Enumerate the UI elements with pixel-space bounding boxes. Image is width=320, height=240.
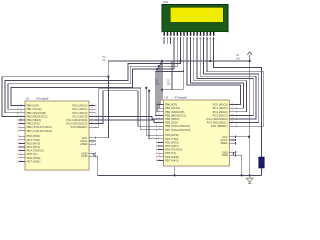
wire U1 GND pins link	[94, 153, 95, 156]
svg-text:4: 4	[20, 142, 21, 144]
svg-text:PD6 (AIN0): PD6 (AIN0)	[27, 156, 41, 160]
svg-text:20: 20	[91, 139, 93, 141]
svg-text:U1: U1	[26, 96, 30, 100]
svg-text:5: 5	[158, 144, 159, 146]
wire LCD pin 3 stub	[170, 37, 172, 44]
svg-text:15: 15	[20, 108, 22, 110]
svg-text:14: 14	[20, 104, 22, 106]
LCD pin header strip with pins 1-16	[162, 32, 228, 37]
U3 pin stubs	[157, 104, 163, 106]
wire continuation left with jog to U1	[8, 66, 159, 109]
svg-text:2: 2	[158, 134, 159, 136]
wire box bottom horizontal	[162, 89, 183, 91]
svg-text:AREF: AREF	[221, 141, 229, 145]
svg-text:28: 28	[232, 121, 234, 123]
svg-text:PB5 (SCK): PB5 (SCK)	[27, 122, 40, 126]
svg-text:22: 22	[91, 155, 93, 157]
svg-text:20: 20	[232, 138, 234, 140]
wire branch down to U3 PD1	[149, 91, 157, 139]
power symbol +5V	[247, 52, 252, 61]
svg-text:7: 7	[232, 135, 233, 137]
junction U3 VCC / +5V vertical	[248, 136, 250, 138]
crystal X1 (blue component)	[259, 157, 265, 168]
svg-text:PB0 (ICP): PB0 (ICP)	[27, 104, 39, 108]
wire ground bus bottom	[98, 174, 262, 176]
junction at T of LCD pin 5	[158, 65, 160, 67]
svg-text:7: 7	[91, 136, 92, 138]
svg-text:11: 11	[20, 153, 22, 155]
svg-text:13: 13	[158, 159, 160, 161]
wire box right vertical	[171, 61, 173, 90]
U1 pin stubs	[19, 105, 25, 107]
svg-text:PD4 (T0/XCK): PD4 (T0/XCK)	[27, 149, 44, 153]
svg-text:22p: 22p	[167, 83, 172, 86]
svg-text:3: 3	[158, 137, 159, 139]
svg-text:PB0 (ICP): PB0 (ICP)	[165, 103, 177, 107]
microcontroller U1 (ATmega8) body	[25, 101, 89, 170]
svg-text:PC0 (ADC0): PC0 (ADC0)	[213, 103, 228, 107]
junction bus/LCD pin6	[179, 60, 181, 62]
svg-text:PC3 (ADC3): PC3 (ADC3)	[213, 113, 228, 117]
ground symbol	[245, 175, 254, 183]
wire LCD pin 5 drop to level 66.2	[159, 37, 177, 66]
wire LCD data pin 8 to U3 PC0	[187, 37, 240, 105]
svg-text:PC5 (ADC5/SCL): PC5 (ADC5/SCL)	[207, 121, 228, 125]
svg-text:24: 24	[232, 107, 234, 109]
svg-text:26: 26	[91, 115, 93, 117]
svg-text:13: 13	[20, 160, 22, 162]
svg-text:PC5 (ADC5/SCL): PC5 (ADC5/SCL)	[66, 122, 87, 126]
wire box left vertical (bus to cap row)	[161, 61, 163, 90]
wire LCD data pin 11 to U3 PC3	[197, 37, 253, 115]
wire U1 GND drop to ground bus	[94, 156, 98, 175]
svg-text:PC4 (ADC4/SDA): PC4 (ADC4/SDA)	[66, 118, 87, 122]
svg-text:12: 12	[158, 155, 160, 157]
svg-text:9: 9	[20, 126, 21, 128]
svg-text:PD1 (TXD): PD1 (TXD)	[27, 138, 40, 142]
wire U3 ground stub up	[174, 166, 176, 175]
wire U3 VCC to +5V line	[236, 136, 249, 138]
svg-text:PB6 (XTAL1/TOSC1): PB6 (XTAL1/TOSC1)	[27, 125, 52, 129]
svg-text:ATmega8: ATmega8	[174, 95, 188, 99]
wire LCD pin 1 stub	[163, 37, 165, 44]
svg-text:PB3 (MOSI/OC2): PB3 (MOSI/OC2)	[27, 114, 48, 118]
junction box bottom	[161, 89, 163, 91]
svg-text:PD0 (RXD): PD0 (RXD)	[27, 134, 41, 138]
wire LCD data pin 12 to U3 PC4	[200, 37, 256, 119]
svg-text:PD2 (INT0): PD2 (INT0)	[27, 141, 41, 145]
svg-text:17: 17	[20, 115, 22, 117]
U1 unconnected pin markers	[18, 105, 19, 107]
svg-text:AREF: AREF	[80, 142, 88, 146]
svg-text:18: 18	[158, 117, 160, 119]
svg-text:PB6 (XTAL1/TOSC1): PB6 (XTAL1/TOSC1)	[165, 124, 190, 128]
wire LCD pin 2 stub	[166, 37, 168, 44]
junction ground bus / U3 GND drop	[241, 174, 243, 176]
U3 unconnected pin markers	[156, 104, 157, 106]
svg-text:PD5 (T1): PD5 (T1)	[27, 152, 38, 156]
svg-text:5V: 5V	[103, 59, 106, 62]
svg-text:27: 27	[91, 118, 93, 120]
wire LCD pin 16 to crystal branch	[214, 37, 262, 157]
junction ground bus / U3 stub	[174, 174, 176, 176]
svg-text:25: 25	[232, 110, 234, 112]
svg-text:PC2 (ADC2): PC2 (ADC2)	[213, 110, 228, 114]
wire LCD pin 6 drop to level 63.5	[161, 37, 181, 64]
wire LCD data pin 14 to U3 PC6	[207, 37, 264, 126]
wire continuation left with jog to U1	[5, 64, 161, 113]
wire LCD pin 7 drop to level 71.5	[155, 37, 184, 72]
wire LCD pin 4 drop to level 68.9	[157, 37, 174, 69]
svg-text:PD5 (T1): PD5 (T1)	[165, 151, 176, 155]
svg-text:8: 8	[232, 151, 233, 153]
wire branch down to U3 PB2	[157, 66, 159, 108]
svg-text:23: 23	[91, 104, 93, 106]
wire VCC bus horizontal	[108, 60, 250, 62]
svg-text:U3: U3	[165, 95, 169, 99]
svg-text:21: 21	[232, 142, 234, 144]
svg-text:PB1 (OC1A): PB1 (OC1A)	[27, 107, 42, 111]
svg-text:10: 10	[158, 128, 160, 130]
svg-text:19: 19	[20, 122, 22, 124]
junction at T of LCD pin 4	[156, 68, 158, 70]
svg-text:9: 9	[158, 125, 159, 127]
svg-text:PB1 (OC1A): PB1 (OC1A)	[165, 106, 180, 110]
svg-text:2: 2	[20, 135, 21, 137]
svg-text:10: 10	[20, 129, 22, 131]
junction bus/box left	[161, 60, 163, 62]
junction bus/right drop	[249, 60, 251, 62]
wire U1 PC4 to U3 PB5	[95, 120, 157, 123]
svg-text:PC3 (ADC3): PC3 (ADC3)	[72, 114, 87, 118]
svg-text:25: 25	[91, 111, 93, 113]
svg-text:1: 1	[91, 126, 92, 128]
wire branch down to U3 PB1	[156, 69, 158, 112]
svg-text:16: 16	[158, 110, 160, 112]
svg-text:PB2 (SS/OC1B): PB2 (SS/OC1B)	[27, 111, 46, 115]
wire U3 GND pins link	[234, 152, 236, 155]
svg-text:23: 23	[232, 103, 234, 105]
svg-text:PB4 (MISO): PB4 (MISO)	[165, 117, 180, 121]
svg-text:PC0 (ADC0): PC0 (ADC0)	[72, 104, 87, 108]
svg-text:GND: GND	[222, 153, 228, 157]
svg-text:18: 18	[20, 118, 22, 120]
svg-text:PD3 (INT1): PD3 (INT1)	[27, 145, 41, 149]
wire right vertical from VCC junction down to ground rail	[249, 61, 251, 175]
svg-text:GND: GND	[81, 154, 87, 158]
junction LCD pin 15 / bus	[209, 60, 211, 62]
svg-text:28: 28	[91, 122, 93, 124]
wire LCD data pin 9 to U3 PC1	[190, 37, 243, 108]
wire U3 GND drop to ground bus	[234, 155, 242, 175]
wire branch down to U3 PB0	[155, 72, 157, 116]
svg-text:PB4 (MISO): PB4 (MISO)	[27, 118, 42, 122]
svg-text:6: 6	[20, 149, 21, 151]
wire continuation left with jog to U1	[11, 69, 157, 106]
junction Z-wire / PD0 branch	[145, 87, 147, 89]
svg-text:24: 24	[91, 108, 93, 110]
wire component bottom lead	[260, 168, 262, 175]
junction at T of LCD pin 6	[160, 62, 162, 64]
wire branch down to U3 PD0	[146, 88, 157, 135]
svg-text:PC1 (ADC1): PC1 (ADC1)	[72, 107, 87, 111]
wire LCD pin 15 to bus	[209, 37, 211, 61]
svg-text:16: 16	[20, 111, 22, 113]
wire U1 PC5 to U3 PB6	[95, 91, 157, 126]
svg-text:PC6 (RESET): PC6 (RESET)	[71, 125, 88, 129]
svg-text:PD3 (INT1): PD3 (INT1)	[165, 144, 179, 148]
svg-text:3: 3	[20, 138, 21, 140]
svg-text:PC1 (ADC1): PC1 (ADC1)	[213, 106, 228, 110]
svg-text:PD4 (T0/XCK): PD4 (T0/XCK)	[165, 148, 182, 152]
junction ground bus / +5V vertical	[249, 174, 251, 176]
wire LCD data pin 13 to U3 PC5	[204, 37, 259, 123]
wire U1 PC6 to U3 PB7	[95, 88, 157, 130]
svg-text:8: 8	[91, 152, 92, 154]
svg-text:PB3 (MOSI/OC2): PB3 (MOSI/OC2)	[165, 113, 186, 117]
wire LCD data pin 10 to U3 PC2	[194, 37, 247, 112]
svg-text:PC6 (RESET): PC6 (RESET)	[211, 124, 228, 128]
svg-text:6: 6	[158, 148, 159, 150]
svg-text:5: 5	[20, 145, 21, 147]
svg-text:17: 17	[158, 114, 160, 116]
wire box drop to U3 top	[161, 90, 163, 101]
svg-text:ATmega8: ATmega8	[35, 96, 49, 100]
svg-text:PB5 (SCK): PB5 (SCK)	[165, 121, 178, 125]
svg-text:PD0 (RXD): PD0 (RXD)	[165, 133, 179, 137]
junction Z-wire / PD1 branch	[148, 90, 150, 92]
svg-text:PD1 (TXD): PD1 (TXD)	[165, 137, 178, 141]
svg-text:PD7 (AIN1): PD7 (AIN1)	[27, 159, 41, 163]
svg-text:4: 4	[158, 141, 159, 143]
svg-text:27: 27	[232, 117, 234, 119]
wire bus-A left drop to U1 PB3	[2, 61, 108, 116]
svg-text:PD7 (AIN1): PD7 (AIN1)	[165, 158, 179, 162]
svg-text:19: 19	[158, 121, 160, 123]
svg-text:PC2 (ADC2): PC2 (ADC2)	[72, 111, 87, 115]
svg-text:PB7 (XTAL2/TOSC2): PB7 (XTAL2/TOSC2)	[27, 129, 52, 133]
svg-text:PC4 (ADC4/SDA): PC4 (ADC4/SDA)	[206, 117, 227, 121]
svg-text:PB7 (XTAL2/TOSC2): PB7 (XTAL2/TOSC2)	[165, 128, 190, 132]
svg-text:PD2 (INT0): PD2 (INT0)	[165, 140, 179, 144]
svg-text:1: 1	[232, 125, 233, 127]
svg-text:21: 21	[91, 143, 93, 145]
wire U1 VCC to +5V line	[95, 77, 108, 138]
svg-text:11: 11	[158, 152, 160, 154]
wire U1 PC3 to U3 PB4	[95, 116, 157, 119]
junction U1 VCC / bus-A drop	[107, 76, 109, 78]
svg-text:PD6 (AIN0): PD6 (AIN0)	[165, 155, 179, 159]
svg-text:PB2 (SS/OC1B): PB2 (SS/OC1B)	[165, 110, 184, 114]
svg-text:12: 12	[20, 156, 22, 158]
wire branch down to U3 PB3	[157, 64, 160, 105]
microcontroller U3 (ATmega8) body	[164, 100, 230, 166]
wire box riser to E line	[182, 70, 184, 90]
svg-text:LM1: LM1	[163, 0, 169, 4]
svg-text:26: 26	[232, 114, 234, 116]
